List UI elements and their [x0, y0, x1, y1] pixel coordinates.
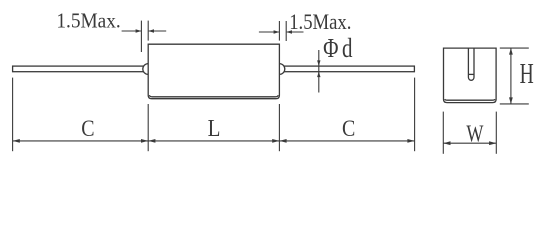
svg-text:Φd: Φd [323, 33, 356, 63]
arrowhead right 1.5Max pointing right [274, 30, 280, 34]
arrowhead phi-d pointing up [317, 72, 320, 78]
phi-d leader vertical line [318, 50, 320, 93]
arrowhead left 1.5Max pointing right [136, 29, 142, 33]
W dimension extension line right [495, 112, 497, 154]
svg-text:C: C [81, 115, 94, 141]
bottom dimension line C L C [13, 140, 415, 142]
svg-text:W: W [466, 120, 484, 147]
end view slot chord line [468, 73, 474, 75]
arrowhead C right pointing right [407, 139, 414, 143]
end view lead slot [468, 48, 474, 80]
left lead end bump [143, 64, 154, 75]
arrowheads at body right edge [272, 139, 279, 143]
right lead [278, 66, 414, 72]
left 1.5Max dimension line left segment [122, 30, 141, 32]
extension line at body left edge [147, 104, 149, 151]
arrowhead phi-d pointing down [317, 60, 320, 66]
svg-text:H: H [520, 58, 534, 90]
arrowhead W pointing left [443, 141, 450, 145]
left 1.5Max dimension line right segment [149, 30, 167, 32]
H top extension line [500, 47, 529, 49]
extension line at body right edge [278, 104, 280, 151]
left lead [13, 66, 149, 72]
arrowhead right 1.5Max pointing left [286, 30, 292, 34]
arrowheads at body left edge [141, 139, 148, 143]
end view body outline [444, 48, 497, 103]
arrowhead H pointing up [509, 48, 513, 55]
left 1.5Max extension line B (body edge extended) [147, 21, 149, 41]
svg-text:C: C [342, 115, 355, 141]
W dimension line [443, 142, 496, 144]
resistor body outline [148, 44, 279, 98]
right lead end bump [274, 64, 285, 75]
arrowhead W pointing right [489, 141, 496, 145]
right 1.5Max dimension line left segment [259, 31, 279, 33]
right 1.5Max extension line A (body edge extended) [278, 21, 280, 41]
svg-text:1.5Max.: 1.5Max. [289, 10, 351, 34]
right 1.5Max extension line B [285, 21, 287, 41]
extension line at left lead end [12, 78, 14, 152]
svg-text:1.5Max.: 1.5Max. [56, 10, 120, 33]
end view bottom inner line [445, 99, 495, 100]
H bottom extension line [500, 103, 529, 105]
body bottom inner line [149, 95, 278, 97]
H dimension line [510, 48, 512, 104]
arrowhead C left pointing left [13, 139, 20, 143]
svg-text:L: L [208, 115, 221, 142]
right 1.5Max dimension line right segment [287, 31, 304, 33]
extension line at right lead end [414, 78, 416, 152]
arrowhead H pointing down [509, 97, 513, 104]
arrowhead left 1.5Max pointing left [148, 29, 154, 33]
W dimension extension line left [442, 112, 444, 154]
left 1.5Max extension line A [140, 21, 142, 52]
